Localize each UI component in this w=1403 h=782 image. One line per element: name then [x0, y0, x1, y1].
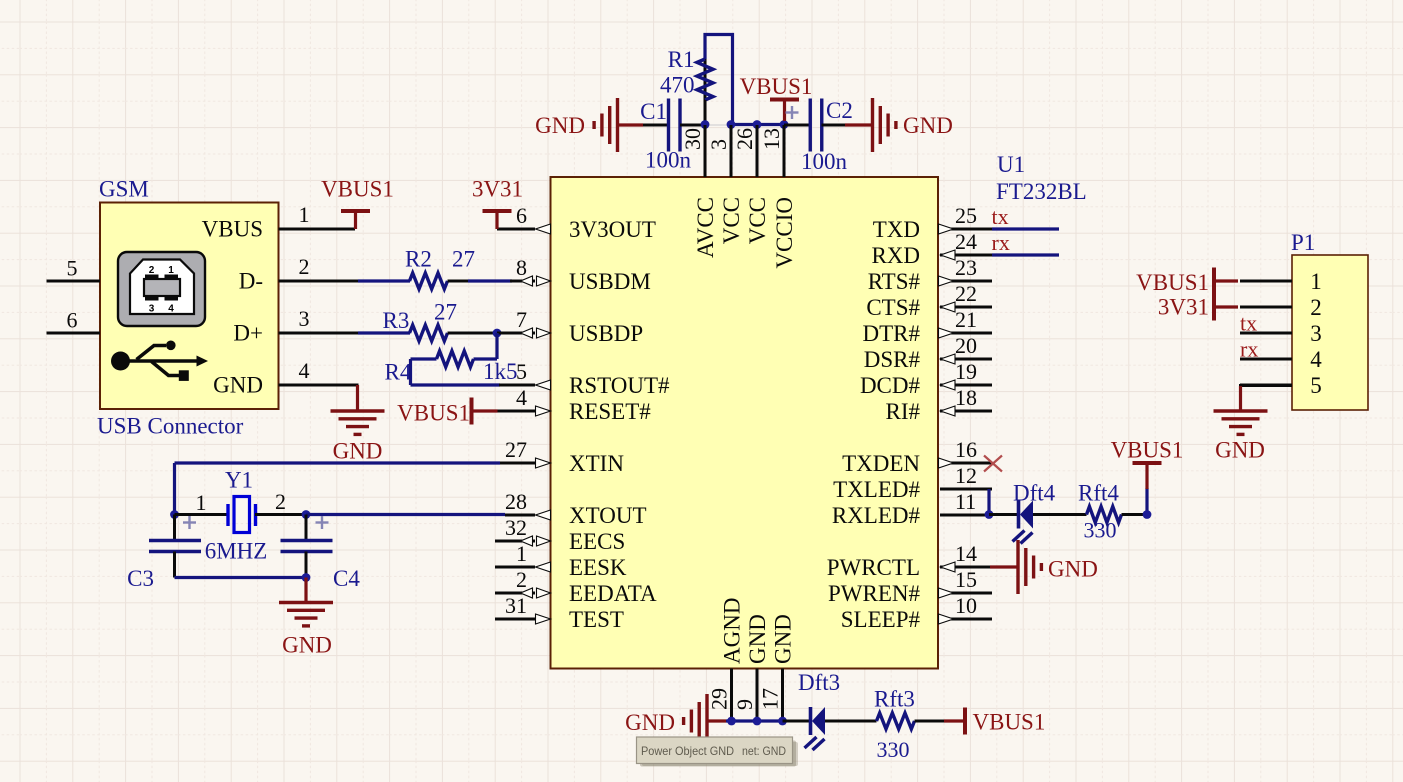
- pin name XTOUT: [569, 503, 647, 528]
- svg-text:2: 2: [299, 254, 310, 279]
- svg-text:VCCIO: VCCIO: [772, 197, 797, 269]
- pin name USBDM: [569, 269, 651, 294]
- svg-text:4: 4: [299, 358, 310, 383]
- faint wire node30 to node3: [705, 124, 731, 126]
- svg-text:C4: C4: [333, 566, 360, 591]
- pin number 10: [955, 593, 977, 618]
- pin arrow 19: [941, 380, 956, 390]
- pin name EECS: [569, 529, 625, 554]
- label VBUS1: [1136, 270, 1209, 295]
- net label tx: [992, 204, 1009, 229]
- pin arrow 10: [939, 614, 954, 624]
- power 3V31 at P1 pin 2: [1214, 294, 1238, 321]
- wire Rft4 to node: [1122, 513, 1148, 516]
- pin 22 CTS# wire: [940, 306, 992, 309]
- wire R1 bottom: [704, 100, 707, 125]
- label P1: [1291, 230, 1315, 255]
- pin number 7: [516, 307, 527, 332]
- label R2: [405, 247, 432, 272]
- pin arrow 14: [941, 562, 956, 572]
- svg-text:Dft3: Dft3: [798, 670, 840, 695]
- svg-text:GND: GND: [745, 614, 770, 664]
- pin 12 TXLED# wire: [940, 488, 992, 491]
- capacitor C3: [149, 541, 201, 552]
- svg-text:tx: tx: [992, 204, 1009, 229]
- pin name GND: [745, 614, 770, 664]
- wire XTIN drop: [173, 463, 176, 515]
- plus mark near C4: [316, 516, 329, 529]
- IC U1 FT232BL body: [551, 177, 939, 669]
- label GND: [903, 113, 953, 138]
- svg-text:27: 27: [452, 247, 475, 272]
- net label rx at P1: [1240, 337, 1258, 362]
- svg-text:GND: GND: [333, 439, 383, 464]
- svg-text:GND: GND: [1215, 438, 1265, 463]
- node GND17: [778, 717, 787, 726]
- resistor R3: [410, 325, 448, 341]
- pin number 29: [707, 688, 732, 710]
- pin arrow 1: [536, 562, 551, 572]
- pin 5 wire of GSM: [47, 280, 101, 283]
- pin arrow 28: [536, 510, 551, 520]
- wire stub pin 28: [505, 514, 535, 517]
- pin 4 of P1: [1240, 358, 1292, 361]
- pin arrow 18: [941, 406, 956, 416]
- connector GSM USB box: [100, 203, 279, 410]
- LED Dft4: [1013, 501, 1034, 544]
- pin D- of GSM: [239, 269, 263, 294]
- svg-text:VBUS1: VBUS1: [321, 177, 394, 202]
- crystal Y1: [228, 497, 256, 533]
- pin 6 wire of GSM: [47, 332, 101, 335]
- svg-text:VBUS1: VBUS1: [397, 401, 470, 426]
- svg-text:24: 24: [955, 229, 977, 254]
- svg-text:18: 18: [955, 385, 977, 410]
- net tx wire: [992, 227, 1059, 230]
- svg-text:PWREN#: PWREN#: [828, 581, 921, 606]
- ground below C4: [279, 603, 333, 626]
- svg-text:GSM: GSM: [99, 177, 149, 202]
- svg-text:23: 23: [955, 255, 977, 280]
- svg-text:USBDM: USBDM: [569, 269, 651, 294]
- pin arrow 16: [939, 458, 954, 468]
- wire node to pin 7: [497, 332, 535, 335]
- pin number 31: [505, 593, 527, 618]
- svg-text:RESET#: RESET#: [569, 399, 651, 424]
- label 3V31: [472, 177, 523, 202]
- svg-text:TXD: TXD: [873, 217, 920, 242]
- svg-text:GND: GND: [282, 633, 332, 658]
- pin arrow 4: [536, 406, 551, 416]
- svg-text:8: 8: [516, 255, 527, 280]
- pin name VCCIO: [772, 197, 797, 269]
- resistor Rft3: [877, 713, 915, 729]
- wire pin 12 corner: [987, 489, 990, 515]
- node junction 26: [753, 120, 762, 129]
- svg-text:5: 5: [67, 256, 78, 281]
- pin 25 TXD wire: [940, 228, 992, 231]
- value 100n of C2: [801, 149, 848, 174]
- pin number 2 of P1: [1310, 295, 1322, 320]
- pin name RTS#: [868, 269, 921, 294]
- pin name CTS#: [866, 295, 920, 320]
- label GND: [535, 113, 585, 138]
- svg-text:470: 470: [660, 73, 695, 98]
- ground right of C2: [873, 98, 896, 152]
- svg-text:VCC: VCC: [719, 197, 744, 244]
- pin name RXLED#: [832, 503, 921, 528]
- wire GND stem from GSM pin 4: [356, 385, 359, 411]
- svg-text:C1: C1: [640, 99, 667, 124]
- svg-text:3V3OUT: 3V3OUT: [569, 217, 656, 242]
- svg-text:SLEEP#: SLEEP#: [841, 607, 921, 632]
- label USB Connector: [97, 414, 244, 439]
- ground below GSM pin 4: [331, 411, 385, 434]
- svg-text:1: 1: [168, 265, 174, 276]
- wire to crystal pin 1: [175, 513, 229, 516]
- pin arrow 22: [941, 302, 956, 312]
- wire C2 to gnd: [822, 124, 846, 127]
- node AGND: [727, 717, 736, 726]
- value 1k5 of R4: [483, 359, 518, 384]
- pin name DCD#: [860, 373, 921, 398]
- wire crystal pin 2 to node: [255, 513, 306, 516]
- value 6MHZ of Y1: [205, 539, 268, 564]
- power VBUS1 at RESET#: [472, 398, 498, 425]
- pin arrow 21: [939, 328, 954, 338]
- svg-text:1: 1: [516, 541, 527, 566]
- wire node to C4: [305, 515, 308, 541]
- net rx wire: [992, 253, 1059, 256]
- svg-text:3: 3: [149, 304, 155, 315]
- ground left of C1: [594, 98, 617, 152]
- pin 3 wire of GSM (D+): [279, 332, 359, 335]
- svg-text:TXLED#: TXLED#: [833, 477, 920, 502]
- pin number 1 of P1: [1310, 269, 1322, 294]
- pin 16 TXDEN wire: [940, 462, 992, 465]
- svg-text:1: 1: [299, 202, 310, 227]
- pin arrow 2: [521, 588, 551, 598]
- svg-text:Rft3: Rft3: [874, 687, 915, 712]
- svg-text:EEDATA: EEDATA: [569, 581, 657, 606]
- pin name 3V3OUT: [569, 217, 656, 242]
- svg-text:P1: P1: [1291, 230, 1315, 255]
- pin number 23: [955, 255, 977, 280]
- pin 17 GND wire: [781, 669, 784, 722]
- connector P1 body: [1292, 255, 1368, 410]
- node pin 11/12: [985, 510, 994, 519]
- svg-text:C2: C2: [826, 98, 853, 123]
- value 100n of C1: [645, 148, 692, 173]
- svg-text:3V31: 3V31: [1158, 295, 1209, 320]
- pin name EEDATA: [569, 581, 657, 606]
- label VBUS1: [321, 177, 394, 202]
- capacitor C1: [669, 99, 681, 152]
- label VBUS1: [1111, 438, 1184, 463]
- node C4 gnd: [302, 573, 311, 582]
- svg-text:1: 1: [1310, 269, 1322, 294]
- pin 4 wire of GSM (GND): [279, 384, 359, 387]
- wire pin 14 red lead: [990, 565, 1018, 568]
- svg-text:D-: D-: [239, 269, 263, 294]
- svg-text:U1: U1: [997, 152, 1025, 177]
- pin number 12: [955, 463, 977, 488]
- svg-text:XTOUT: XTOUT: [569, 503, 647, 528]
- pin name RI#: [886, 399, 921, 424]
- label FT232BL: [996, 179, 1087, 204]
- LED Dft3: [805, 707, 826, 750]
- svg-text:21: 21: [955, 307, 977, 332]
- label U1: [997, 152, 1025, 177]
- pin number 16: [955, 437, 977, 462]
- pin name DSR#: [864, 347, 921, 372]
- svg-text:20: 20: [955, 333, 977, 358]
- pin number 18: [955, 385, 977, 410]
- svg-text:5: 5: [1310, 373, 1322, 398]
- pin number 14: [955, 541, 977, 566]
- label GSM: [99, 177, 149, 202]
- wire XTOUT net: [306, 513, 505, 516]
- pin number 5 of P1: [1310, 373, 1322, 398]
- node junction 13: [780, 120, 789, 129]
- wire node to C3: [173, 515, 176, 541]
- pin number 22: [955, 281, 977, 306]
- svg-text:2: 2: [516, 567, 527, 592]
- wire C3 to rail: [173, 552, 176, 578]
- pin number 21: [955, 307, 977, 332]
- svg-text:16: 16: [955, 437, 977, 462]
- wire R4 to RSTOUT#: [411, 383, 501, 386]
- pin name TXLED#: [833, 477, 920, 502]
- label R3: [383, 308, 410, 333]
- svg-text:Rft4: Rft4: [1078, 481, 1119, 506]
- label VBUS1: [973, 710, 1046, 735]
- pin 1 EESK: [495, 566, 535, 569]
- wire VBUS1 drop navy: [1145, 488, 1148, 515]
- svg-text:3V31: 3V31: [472, 177, 523, 202]
- svg-text:C3: C3: [127, 566, 154, 591]
- wire Rft3 to VBUS1: [915, 720, 945, 723]
- resistor R1: [697, 59, 713, 100]
- value 27 of R2: [452, 247, 475, 272]
- pin number 13: [759, 128, 784, 150]
- svg-text:4: 4: [516, 385, 527, 410]
- label Dft4: [1013, 481, 1056, 506]
- label C2: [826, 98, 853, 123]
- pin 11 RXLED# wire: [940, 514, 992, 517]
- pin number 26: [732, 128, 757, 150]
- node at R3/R4 junction: [493, 329, 502, 338]
- pin name AVCC: [693, 197, 718, 258]
- svg-text:DSR#: DSR#: [864, 347, 921, 372]
- svg-text:Power Object GND: Power Object GND: [641, 744, 734, 758]
- label GND: [1215, 438, 1265, 463]
- pin number 4: [299, 358, 310, 383]
- label C1: [640, 99, 667, 124]
- pin 3 of P1: [1240, 332, 1292, 335]
- node junction 30: [701, 120, 710, 129]
- svg-text:28: 28: [505, 489, 527, 514]
- pin 9 GND wire: [756, 669, 759, 722]
- wire R4 left lead: [411, 357, 437, 360]
- pin name XTIN: [569, 451, 624, 476]
- svg-text:15: 15: [955, 567, 977, 592]
- pin number 4: [516, 385, 527, 410]
- label C4: [333, 566, 360, 591]
- svg-text:VCC: VCC: [745, 197, 770, 244]
- svg-text:3: 3: [1310, 321, 1322, 346]
- wire XTIN net: [175, 461, 501, 464]
- pin 31 TEST: [495, 618, 535, 621]
- svg-text:rx: rx: [992, 230, 1010, 255]
- resistor R2: [410, 273, 448, 289]
- wire gnd lead red right: [845, 123, 873, 126]
- capacitor C4: [281, 541, 333, 552]
- svg-text:D+: D+: [233, 321, 263, 346]
- net label rx: [992, 230, 1010, 255]
- pin number 6: [67, 308, 78, 333]
- svg-text:RTS#: RTS#: [868, 269, 921, 294]
- svg-text:RXD: RXD: [871, 243, 920, 268]
- svg-text:XTIN: XTIN: [569, 451, 624, 476]
- pin number 8: [516, 255, 527, 280]
- svg-text:R3: R3: [383, 308, 410, 333]
- svg-text:TEST: TEST: [569, 607, 624, 632]
- label C3: [127, 566, 154, 591]
- svg-text:PWRCTL: PWRCTL: [827, 555, 920, 580]
- wire rail to Dft3: [783, 720, 811, 723]
- wire C4 to rail: [305, 552, 308, 578]
- label R4: [385, 360, 412, 385]
- svg-text:14: 14: [955, 541, 977, 566]
- pin number 20: [955, 333, 977, 358]
- pin number 9: [732, 699, 757, 710]
- svg-text:TXDEN: TXDEN: [842, 451, 920, 476]
- pin 2 of P1: [1240, 306, 1292, 309]
- wire R2 to USBDM: [448, 280, 469, 283]
- svg-text:VBUS: VBUS: [202, 217, 263, 242]
- ground left of bottom rail: [684, 694, 707, 748]
- svg-text:19: 19: [955, 359, 977, 384]
- wire gnd stem P1: [1239, 386, 1242, 411]
- svg-text:rx: rx: [1240, 337, 1258, 362]
- svg-text:EECS: EECS: [569, 529, 625, 554]
- pin number 4 of P1: [1310, 347, 1322, 372]
- wire node13 to C2: [784, 124, 811, 127]
- USB trident icon: [111, 341, 208, 381]
- svg-text:GND: GND: [535, 113, 585, 138]
- label VBUS1: [740, 74, 813, 99]
- pin number 28: [505, 489, 527, 514]
- pin 3 VCC wire: [730, 125, 733, 177]
- wire 3V3OUT pin 6: [497, 228, 535, 231]
- power VBUS1 above Rft4: [1133, 463, 1162, 489]
- pin number 30: [680, 128, 705, 150]
- pin name USBDP: [569, 321, 643, 346]
- pin arrow 6: [536, 224, 551, 234]
- node Rft4 VBUS1: [1143, 510, 1152, 519]
- svg-text:9: 9: [732, 699, 757, 710]
- svg-text:AVCC: AVCC: [693, 197, 718, 258]
- pin name TXD: [873, 217, 920, 242]
- ground below P1 pin 5: [1214, 411, 1268, 434]
- pin arrow 31: [536, 614, 551, 624]
- label Rft3: [874, 687, 915, 712]
- svg-text:2: 2: [275, 489, 286, 514]
- wire bottom rail of crystal: [175, 576, 307, 579]
- pin arrow 15: [939, 588, 954, 598]
- pin name VCC: [719, 197, 744, 244]
- svg-text:32: 32: [505, 515, 527, 540]
- node crystal pin 2: [302, 510, 311, 519]
- svg-text:USB Connector: USB Connector: [97, 414, 244, 439]
- pin number 24: [955, 229, 977, 254]
- pin number 25: [955, 203, 977, 228]
- svg-text:27: 27: [505, 437, 527, 462]
- resistor R4: [437, 351, 474, 367]
- wire stub pin 5: [499, 384, 535, 387]
- pin arrow 5: [536, 380, 551, 390]
- pin arrow 20: [941, 354, 956, 364]
- pin 32 EECS: [495, 540, 535, 543]
- pin name RSTOUT#: [569, 373, 670, 398]
- svg-text:GND: GND: [903, 113, 953, 138]
- svg-text:29: 29: [707, 688, 732, 710]
- svg-text:GND: GND: [213, 373, 263, 398]
- pin 20 DSR# wire: [940, 358, 992, 361]
- svg-text:RI#: RI#: [886, 399, 921, 424]
- wire stub pin 27: [500, 462, 535, 465]
- pin number 1: [299, 202, 310, 227]
- svg-text:tx: tx: [1240, 311, 1257, 336]
- pin name SLEEP#: [841, 607, 921, 632]
- svg-text:11: 11: [955, 489, 976, 514]
- power VBUS1 at P1 pin 1: [1214, 268, 1238, 295]
- svg-text:VBUS1: VBUS1: [740, 74, 813, 99]
- wire R4 down corner: [409, 359, 412, 385]
- pin name DTR#: [863, 321, 921, 346]
- svg-text:100n: 100n: [801, 149, 848, 174]
- pin number 3 of P1: [1310, 321, 1322, 346]
- svg-text:330: 330: [877, 737, 910, 762]
- pin number 3: [299, 306, 310, 331]
- pin number 19: [955, 359, 977, 384]
- wire C1 to node 30: [680, 124, 705, 127]
- pin 26 VCC wire: [756, 125, 759, 177]
- svg-text:10: 10: [955, 593, 977, 618]
- svg-text:2: 2: [1310, 295, 1322, 320]
- pin 2 wire of GSM (D-): [279, 280, 359, 283]
- pin number 5: [516, 359, 527, 384]
- plus mark near C2: [786, 106, 799, 119]
- pin name AGND: [720, 598, 745, 664]
- resistor Rft4: [1087, 507, 1122, 523]
- svg-text:VBUS1: VBUS1: [1111, 438, 1184, 463]
- svg-text:EESK: EESK: [569, 555, 627, 580]
- pin 14 PWRCTL wire: [940, 566, 992, 569]
- wire R4 node drop: [495, 333, 498, 359]
- svg-text:25: 25: [955, 203, 977, 228]
- pin name VCC: [745, 197, 770, 244]
- label GND: [333, 439, 383, 464]
- svg-text:DTR#: DTR#: [863, 321, 921, 346]
- wire R1 top loop: [705, 35, 733, 124]
- wire stub pin 8: [510, 280, 535, 283]
- svg-text:27: 27: [434, 300, 457, 325]
- wire R4 right lead: [474, 357, 498, 360]
- svg-text:12: 12: [955, 463, 977, 488]
- pin number 5: [67, 256, 78, 281]
